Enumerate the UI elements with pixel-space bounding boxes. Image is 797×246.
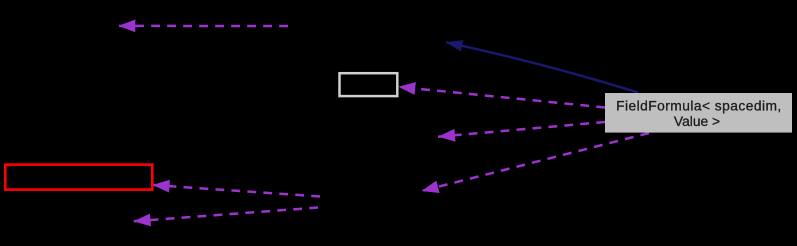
svg-text:Value >: Value > xyxy=(674,114,720,129)
svg-text:FieldFormula< spacedim,: FieldFormula< spacedim, xyxy=(616,99,782,114)
